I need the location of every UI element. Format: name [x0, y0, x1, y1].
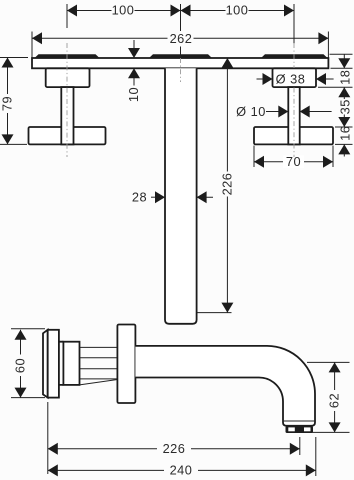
svg-text:28: 28: [132, 189, 147, 204]
dim 70: label on white: [283, 156, 304, 169]
dim 79: line and arrows: [7, 58, 9, 145]
dim 28: right arrow: [197, 196, 213, 198]
dim 62: line and arrows: [334, 362, 336, 432]
svg-text:Ø 10: Ø 10: [236, 104, 266, 119]
spout centerline: [180, 58, 182, 82]
dim 60: line and arrows: [20, 330, 22, 398]
svg-text:100: 100: [112, 3, 135, 18]
svg-text:62: 62: [327, 393, 342, 408]
ext line spout end: [198, 312, 232, 314]
cross handle bar (side): [117, 325, 135, 404]
svg-text:226: 226: [163, 441, 186, 456]
spout tube and bend: [135, 346, 315, 426]
dim 262: arrows: [32, 32, 42, 44]
dim 70: line: [254, 161, 333, 163]
ext line plate right: [327, 32, 329, 58]
aerator collar line: [284, 420, 315, 422]
svg-text:35: 35: [337, 99, 352, 114]
ext line left handle center: [66, 4, 68, 28]
svg-text:240: 240: [170, 463, 193, 478]
svg-text:226: 226: [220, 173, 235, 196]
handle hub top line: [80, 346, 118, 348]
aerator band: [286, 426, 314, 433]
right handle cross bar: [254, 127, 333, 144]
handle hub taper: [80, 380, 118, 385]
svg-text:16: 16: [337, 126, 352, 141]
spout outer ext line: [315, 437, 317, 476]
right handle centerline: [293, 43, 295, 157]
center escutcheon bump: [149, 54, 212, 58]
aerator windows: [288, 427, 295, 431]
ext line right handle center: [293, 4, 295, 44]
outlet center ext line: [299, 437, 301, 455]
flange in-wall sliver: [43, 330, 48, 398]
dim 10: upper arrow: [133, 40, 135, 58]
dim 18: [343, 54, 345, 68]
ext line handle bar bottom left: [0, 143, 27, 145]
ext line spout center: [180, 4, 182, 58]
wall plate (plan view): [32, 58, 328, 68]
dim 60: ext lines: [11, 329, 45, 398]
valve body box: [63, 342, 79, 385]
dim 62: ext lines: [307, 362, 350, 432]
svg-text:70: 70: [286, 154, 301, 169]
svg-text:18: 18: [337, 70, 352, 85]
dim 226 plan: line: [226, 58, 228, 313]
flange escutcheon: [48, 330, 59, 398]
right handle stem: [288, 87, 299, 144]
spout (plan view): [165, 68, 197, 323]
valve neck lines: [59, 342, 64, 385]
dim 262: line: [32, 37, 328, 39]
dim O10: right arrow: [300, 111, 332, 113]
dim 10: lower arrow: [133, 68, 135, 85]
dim 226 side: line: [48, 448, 300, 450]
dim 100 right: arrows: [181, 5, 191, 17]
right column ext ticks: [330, 53, 353, 55]
left handle stem: [61, 87, 73, 144]
svg-text:262: 262: [170, 31, 193, 46]
handle hub bottom line: [80, 378, 118, 380]
svg-text:100: 100: [226, 3, 249, 18]
left handle cartridge box: [46, 68, 90, 87]
svg-text:79: 79: [0, 96, 15, 111]
svg-text:10: 10: [126, 87, 141, 102]
dim 28: left arrow: [151, 196, 165, 198]
dim 100 left: arrows: [67, 5, 77, 17]
ext line bar bottom left corner: [253, 146, 255, 168]
wall face ext line: [47, 402, 49, 474]
dim 100 left: line: [67, 10, 181, 12]
ext line bar bottom right corner: [332, 146, 334, 168]
svg-text:Ø 38: Ø 38: [276, 72, 306, 87]
left handle centerline: [66, 43, 68, 157]
svg-text:60: 60: [13, 358, 28, 373]
dim 100 right: line: [181, 10, 295, 12]
dim O10: left arrow: [266, 111, 288, 113]
ext line plate left: [31, 32, 33, 58]
dim O38: right arrow: [316, 78, 334, 80]
right handle cartridge box: [273, 68, 317, 87]
handle stem lines: [80, 358, 118, 369]
ext line plate top left: [0, 57, 28, 59]
dim O38: left arrow: [257, 78, 273, 80]
dim 240: line: [48, 469, 316, 471]
left escutcheon bump: [35, 54, 100, 58]
left handle cross bar: [29, 127, 106, 144]
right escutcheon bump: [261, 54, 328, 58]
